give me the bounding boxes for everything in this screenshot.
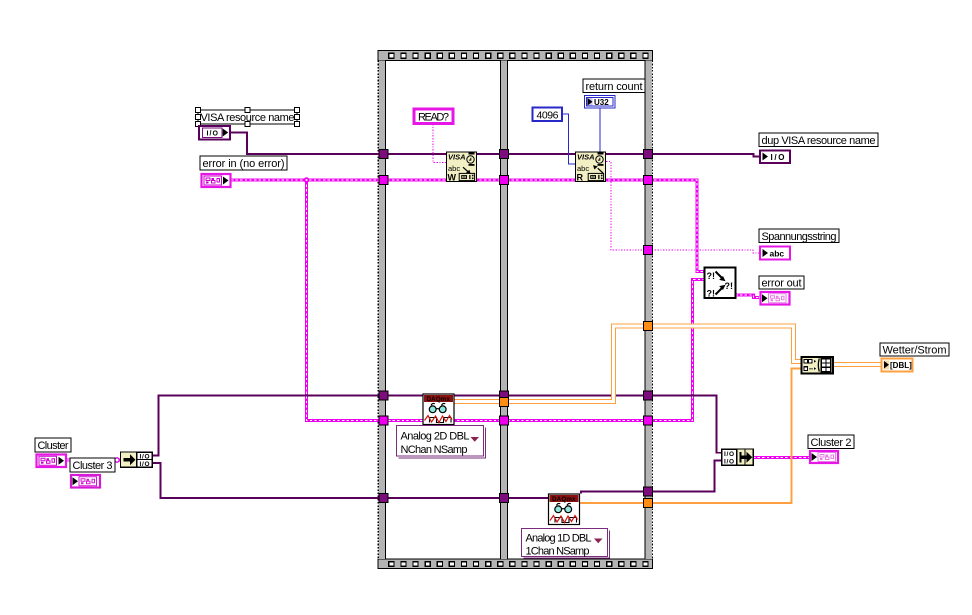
svg-text:I/O: I/O xyxy=(724,451,734,458)
tunnel error left border xyxy=(379,176,388,185)
tunnel string right border xyxy=(644,246,653,255)
terminal dup VISA resource name I/O indicator xyxy=(760,151,790,164)
label Wetter/Strom xyxy=(880,343,949,357)
node DAQmx Read (Analog 1D DBL) xyxy=(549,494,580,525)
label Cluster 2 xyxy=(808,435,854,449)
op VISA Read U2 xyxy=(576,152,606,183)
node unbundle (cluster to two I/O) xyxy=(121,452,153,468)
terminal Cluster 3 indicator xyxy=(71,475,100,488)
wire error out of merge errors node xyxy=(736,295,760,298)
label dup VISA resource name xyxy=(759,133,878,147)
label return count xyxy=(583,79,645,93)
svg-text:READ?: READ? xyxy=(418,112,449,124)
node DAQmx Read (Analog 2D DBL) xyxy=(423,394,454,425)
tunnel task2 divider xyxy=(500,494,509,503)
constant READ? string xyxy=(414,109,453,124)
tunnel task left border xyxy=(379,391,388,400)
tunnel task divider xyxy=(500,391,509,400)
op VISA Write U1 xyxy=(447,152,477,183)
label error in (no error) xyxy=(200,156,287,170)
label Cluster 3 xyxy=(70,458,115,472)
svg-text:Cluster: Cluster xyxy=(38,440,69,452)
svg-text:DAQmx: DAQmx xyxy=(427,396,451,403)
svg-text:abc: abc xyxy=(770,249,785,259)
svg-text:4096: 4096 xyxy=(537,109,559,121)
junction on error wire xyxy=(304,177,310,183)
wire 2D DBL array out of Build Array to Wetter/Strom xyxy=(833,362,881,367)
svg-text:Cluster 3: Cluster 3 xyxy=(73,460,113,472)
svg-text:I/O: I/O xyxy=(140,453,150,460)
constant 4096 U32 xyxy=(533,108,563,122)
svg-text:Wetter/Strom: Wetter/Strom xyxy=(883,345,947,357)
svg-text:Analog 2D DBL: Analog 2D DBL xyxy=(401,431,470,443)
svg-text:[DBL]: [DBL] xyxy=(890,361,912,370)
svg-text:VISA: VISA xyxy=(577,153,595,162)
terminal Spannungsstring abc indicator xyxy=(760,247,790,260)
svg-text:NChan NSamp: NChan NSamp xyxy=(401,444,468,456)
tunnel error2 left border xyxy=(379,416,388,425)
terminal Cluster control xyxy=(37,455,67,468)
tunnel error2 divider xyxy=(500,416,509,425)
wire error cluster: error in through VISA Write/Read to tunnels xyxy=(231,180,705,272)
wire cluster: bundle node to Cluster 2 xyxy=(753,456,809,459)
svg-text:DAQmx: DAQmx xyxy=(552,496,576,503)
selector label Analog 1D DBL 1Chan NSamp xyxy=(522,529,610,559)
terminal Wetter/Strom [DBL] array indicator xyxy=(882,359,913,372)
wire error branch down to DAQmx row and merge errors lower input xyxy=(307,180,705,421)
wire string READ? constant to VISA Write xyxy=(433,124,446,163)
junction ring near unbundle input xyxy=(115,458,119,462)
terminal error out cluster indicator xyxy=(761,292,790,305)
svg-text:I/O: I/O xyxy=(140,461,150,468)
svg-text:error out: error out xyxy=(762,278,802,290)
tunnel 1D task right border xyxy=(644,487,653,496)
tunnel VISA divider xyxy=(500,150,509,159)
svg-text:dup VISA resource name: dup VISA resource name xyxy=(762,135,876,147)
wire 2D DBL array (double line) DAQmx 2D to Build Array xyxy=(454,326,802,402)
wire cluster: Cluster control to unbundle node xyxy=(67,459,120,462)
terminal error in cluster control xyxy=(202,174,231,187)
svg-text:Cluster 2: Cluster 2 xyxy=(811,437,852,449)
wire VISA resource: I/O control to VISA Write, VISA Read, dup VISA resource name xyxy=(230,133,759,157)
wire DAQmx task (I/O) upper: unbundle to DAQmx 2D and bundle xyxy=(152,396,722,456)
svg-text:I/O: I/O xyxy=(771,153,785,162)
tunnel VISA right border xyxy=(644,150,653,159)
tunnel error divider xyxy=(500,176,509,185)
svg-text:I/O: I/O xyxy=(724,458,734,465)
wire 1D DBL array DAQmx 1D to Build Array xyxy=(579,369,802,504)
terminal return count U32 indicator xyxy=(585,96,616,109)
tunnel 2D data right border xyxy=(644,322,653,331)
tunnel error right border xyxy=(644,176,653,185)
svg-text:R: R xyxy=(577,173,584,183)
svg-text:return count: return count xyxy=(586,81,643,93)
wire DAQmx 1D task out to bundle node xyxy=(581,461,722,494)
label Cluster xyxy=(35,438,71,452)
wire string read buffer to Spannungsstring xyxy=(606,162,759,254)
svg-text:W: W xyxy=(448,173,457,183)
flat sequence structure (film-strip border, 2 frames) xyxy=(378,51,653,569)
svg-text:VISA: VISA xyxy=(448,153,466,162)
svg-text:Analog 1D DBL: Analog 1D DBL xyxy=(526,533,592,545)
tunnel task right border xyxy=(644,391,653,400)
terminal VISA resource name I/O control xyxy=(199,126,230,140)
terminal Cluster 2 indicator xyxy=(810,451,838,463)
svg-text:error in (no error): error in (no error) xyxy=(203,158,285,170)
svg-text:U32: U32 xyxy=(594,98,609,107)
wire U32 constant 4096 to VISA Read xyxy=(562,114,575,164)
svg-text:Spannungsstring: Spannungsstring xyxy=(762,231,837,243)
selector label Analog 2D DBL NChan NSamp xyxy=(397,426,486,459)
wire U32 return count from VISA Read xyxy=(599,108,601,152)
node Build Array (interleave) xyxy=(802,357,834,374)
svg-text:1Chan NSamp: 1Chan NSamp xyxy=(526,546,590,558)
tunnel 1D data right border xyxy=(644,499,653,508)
wire DAQmx task (I/O) lower: unbundle to DAQmx 1D xyxy=(152,463,548,498)
tunnel VISA left border xyxy=(379,150,388,159)
svg-text:I/O: I/O xyxy=(207,130,219,137)
svg-text:?!: ?! xyxy=(725,281,734,291)
tunnel 2D data divider xyxy=(500,398,509,407)
node bundle (two I/O to cluster) xyxy=(722,449,754,465)
label Spannungsstring xyxy=(759,229,839,243)
tunnel task2 left border xyxy=(379,494,388,503)
svg-text:?!: ?! xyxy=(707,271,716,281)
TUNNELS xyxy=(379,150,653,508)
tunnel error2 right border xyxy=(644,416,653,425)
node Merge Errors xyxy=(705,268,736,299)
label VISA resource name (selected, with handles) xyxy=(196,108,300,127)
svg-text:?!: ?! xyxy=(707,289,716,299)
label error out xyxy=(759,276,804,290)
